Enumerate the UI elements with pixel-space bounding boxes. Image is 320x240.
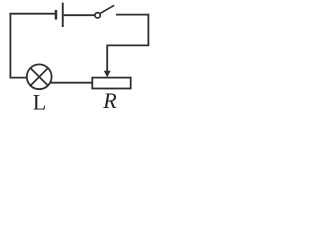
lamp L: cross diagonal 1 <box>30 68 48 86</box>
wire: battery to switch <box>64 14 95 16</box>
wiper arrowhead onto resistor <box>104 71 111 78</box>
wire: lamp to resistor <box>50 82 92 84</box>
switch: open lever arm <box>100 5 114 13</box>
switch: pivot circle <box>95 13 100 18</box>
wire: left loop (top horizontal to battery, left vertical, into lamp) <box>10 14 55 78</box>
lamp L: cross diagonal 2 <box>30 68 48 86</box>
wire: right vertical down <box>147 14 149 46</box>
wire: horizontal over to wiper <box>107 44 149 46</box>
resistor R: body rectangle <box>92 78 130 89</box>
wire: wiper vertical drop <box>106 45 108 72</box>
lamp L: bulb circle <box>27 64 52 89</box>
battery cell: long plate <box>62 3 64 27</box>
svg-text:R: R <box>102 88 117 111</box>
wire: switch fixed contact to top-right corner <box>116 14 148 16</box>
battery cell: short plate <box>55 10 58 20</box>
svg-text:L: L <box>33 90 46 112</box>
